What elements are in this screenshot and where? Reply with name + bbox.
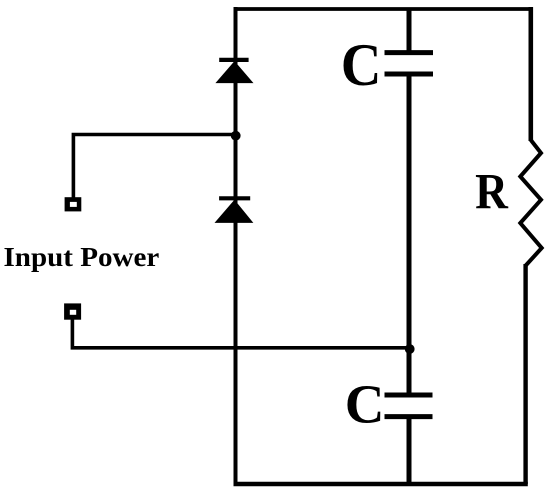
capacitor C2 bottom plate bbox=[385, 414, 433, 419]
svg-text:C: C bbox=[341, 31, 382, 98]
svg-text:Input Power: Input Power bbox=[4, 243, 160, 273]
terminal upper square outer bbox=[65, 197, 82, 211]
capacitor C2 top plate bbox=[385, 393, 433, 398]
capacitor C1 top plate bbox=[385, 50, 434, 55]
diode D2 triangle bbox=[216, 201, 253, 223]
wire right branch upper vertical bbox=[528, 7, 533, 141]
wire capacitor branch bottom segment bbox=[407, 417, 412, 484]
wire input upper L bbox=[73, 135, 235, 198]
diode D1 cathode bar bbox=[219, 58, 248, 62]
resistor R zigzag body bbox=[520, 140, 541, 266]
diode D2 cathode bar bbox=[219, 196, 250, 200]
svg-text:R: R bbox=[475, 164, 509, 220]
svg-text:C: C bbox=[345, 374, 385, 435]
node junction lower (capacitor midpoint) bbox=[405, 344, 415, 354]
terminal upper square inner bbox=[70, 202, 77, 207]
wire left diode branch vertical bbox=[234, 7, 238, 484]
capacitor C1 bottom plate bbox=[385, 72, 434, 77]
terminal lower square inner bbox=[70, 310, 76, 315]
wire right branch lower vertical bbox=[523, 264, 527, 484]
wire bottom horizontal bbox=[234, 482, 528, 486]
wire capacitor branch top segment bbox=[407, 9, 412, 52]
wire input lower L bbox=[72, 319, 409, 348]
terminal lower square outer bbox=[64, 303, 81, 319]
wire capacitor branch middle segment bbox=[407, 75, 412, 395]
node junction upper (diode midpoint) bbox=[231, 131, 241, 141]
wire top horizontal bbox=[234, 7, 532, 11]
diode D1 triangle bbox=[217, 62, 253, 83]
